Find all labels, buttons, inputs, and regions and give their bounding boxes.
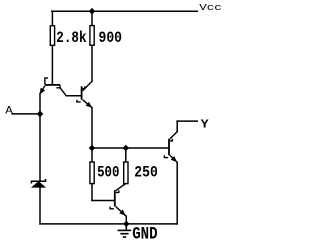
wire bottom rail	[40, 223, 177, 225]
wire Q4 emitter down right side	[176, 162, 178, 224]
wire middle bus to Q4 base	[92, 147, 168, 149]
transistor Q3 (lower, near ground)	[110, 184, 126, 217]
transistor Q1 (input, base from R1, emitter to A, collector to Q2)	[40, 78, 66, 96]
node junction ground	[123, 221, 129, 227]
wire R3 bottom	[91, 184, 93, 201]
transistor Q2 (phase splitter)	[77, 81, 92, 107]
svg-text:Y: Y	[201, 118, 209, 131]
wire Q4 collector vertical	[176, 121, 178, 132]
resistor R1 2.8k	[50, 26, 86, 47]
svg-text:900: 900	[99, 29, 123, 47]
wire Q1 collector to Q2 base	[66, 95, 81, 97]
wire Q3 emitter to ground junction	[125, 216, 127, 224]
wire Q1 emitter column to diode	[39, 93, 41, 180]
wire left drop to R1	[51, 11, 53, 26]
wire input A	[12, 113, 40, 115]
wire bus to R4 top	[125, 148, 127, 162]
svg-text:A: A	[5, 105, 13, 117]
resistor R2 900	[90, 26, 122, 47]
wire to Q3 base	[92, 200, 114, 202]
wire output Y horizontal	[177, 120, 197, 122]
node junction bus / R3	[89, 145, 96, 152]
resistor R4 250	[124, 162, 158, 184]
wire top rail Vcc	[52, 10, 198, 12]
wire R1 bottom to Q1 base	[51, 45, 53, 84]
wire R2 top	[91, 11, 93, 25]
ground symbol	[118, 224, 132, 237]
svg-text:250: 250	[134, 164, 158, 182]
wire R2 bottom to Q2 collector	[91, 45, 93, 81]
svg-text:Vcc: Vcc	[199, 3, 221, 13]
wire diode bottom to rail	[39, 187, 41, 224]
wire bus to R3 top	[91, 148, 93, 162]
svg-text:2.8k: 2.8k	[56, 29, 86, 47]
node junction top rail / R2	[89, 8, 96, 15]
svg-text:500: 500	[97, 164, 119, 182]
resistor R3 500	[90, 162, 120, 184]
zener diode D1	[31, 179, 45, 187]
svg-text:GND: GND	[132, 225, 157, 244]
node junction bus / R4	[123, 145, 130, 152]
node junction input A	[37, 111, 44, 118]
transistor Q4 (output emitter follower)	[164, 132, 177, 163]
wire Q2 emitter down to bus	[91, 108, 93, 148]
